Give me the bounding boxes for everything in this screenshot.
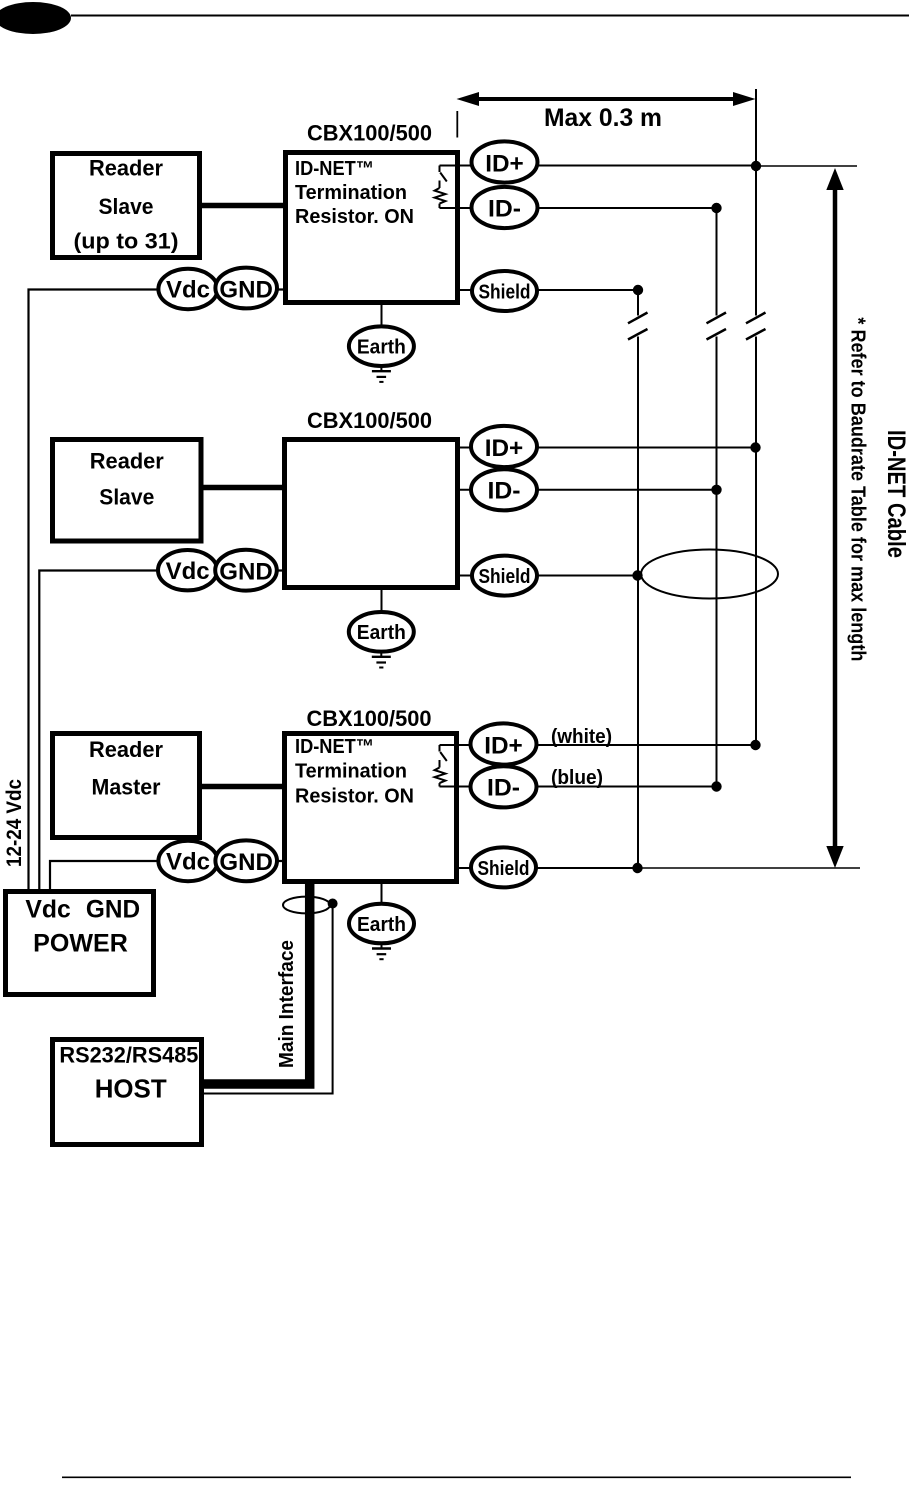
svg-text:ID-: ID- [488, 195, 521, 222]
svg-text:Shield: Shield [479, 282, 531, 304]
svg-text:12-24 Vdc: 12-24 Vdc [3, 779, 26, 867]
Shield bus upper segment [637, 290, 639, 316]
junction dot ID- row 1 [711, 203, 721, 213]
ID-NET cable length arrow [826, 168, 843, 868]
svg-text:* Refer to Baudrate Table for: * Refer to Baudrate Table for max length [847, 317, 869, 661]
Shield bus lower segment [637, 337, 639, 869]
node Vdc row 2 [158, 550, 217, 590]
svg-text:GND: GND [219, 276, 273, 303]
svg-text:CBX100/500: CBX100/500 [307, 706, 432, 731]
svg-text:ID+: ID+ [485, 150, 524, 177]
svg-text:RS232/RS485: RS232/RS485 [59, 1042, 198, 1067]
svg-text:Vdc: Vdc [25, 896, 70, 924]
header rule [71, 15, 909, 17]
node Shield row 3 [471, 847, 536, 887]
main interface second wire (thin) [204, 904, 333, 1094]
wire ID- row 2 [460, 489, 717, 491]
junction dot ID+ row 1 [751, 161, 761, 171]
node ID- row 2 [471, 469, 537, 510]
svg-text:Shield: Shield [478, 858, 530, 880]
box POWER [6, 892, 154, 995]
svg-text:Reader: Reader [89, 156, 163, 181]
svg-text:ID-: ID- [488, 478, 521, 505]
svg-text:Master: Master [92, 774, 161, 799]
junction dot ID+ row 2 [750, 442, 760, 452]
box Reader Master [53, 734, 200, 838]
svg-text:GND: GND [219, 849, 273, 876]
junction dot ID- row 2 [711, 485, 721, 495]
wire ID+ row 3 [459, 744, 756, 746]
junction dot ID- row 3 [711, 781, 721, 791]
svg-text:Earth: Earth [357, 914, 406, 936]
svg-text:Main Interface: Main Interface [276, 940, 298, 1068]
junction dot Shield row 3 [632, 863, 642, 873]
box Reader Slave 1 [53, 154, 200, 258]
svg-text:Vdc: Vdc [166, 277, 210, 304]
footer rule [62, 1476, 851, 1478]
svg-text:POWER: POWER [33, 930, 128, 958]
svg-text:Slave: Slave [99, 484, 154, 509]
svg-text:ID-NET Cable: ID-NET Cable [882, 430, 909, 558]
wire ID+ row 1 [460, 165, 756, 167]
ID+ bus upper segment [755, 89, 757, 316]
node GND row 3 [215, 840, 277, 881]
wire Shield row 1 [460, 289, 638, 291]
ID- bus lower segment [716, 337, 718, 787]
svg-text:CBX100/500: CBX100/500 [307, 408, 432, 433]
header logo ellipse [0, 2, 71, 34]
node ID+ row 1 [472, 141, 538, 182]
svg-text:GND: GND [86, 896, 140, 924]
svg-text:(white): (white) [551, 726, 612, 748]
svg-text:Earth: Earth [357, 622, 406, 644]
ID+ bus lower segment [755, 337, 757, 746]
wire Vdc/GND row 3 to POWER [50, 861, 282, 891]
junction dot ID+ row 3 [750, 740, 760, 750]
wire Vdc/GND row 2 to POWER [39, 571, 282, 892]
node GND row 2 [215, 550, 277, 591]
svg-text:ID-NET™: ID-NET™ [295, 736, 374, 758]
svg-text:Vdc: Vdc [166, 558, 210, 585]
junction dot Shield row 1 [633, 285, 643, 295]
svg-text:Termination: Termination [295, 761, 407, 783]
node Vdc row 1 [158, 269, 217, 309]
junction dot main interface [328, 899, 338, 909]
earth symbol CBX1 [349, 305, 414, 382]
svg-text:CBX100/500: CBX100/500 [307, 121, 432, 146]
svg-text:ID-NET™: ID-NET™ [295, 158, 374, 180]
svg-text:Resistor. ON: Resistor. ON [295, 785, 414, 807]
svg-text:Max 0.3 m: Max 0.3 m [544, 104, 662, 132]
svg-text:HOST: HOST [95, 1074, 167, 1104]
node ID- row 3 [471, 766, 537, 807]
svg-text:Earth: Earth [357, 337, 406, 359]
main interface cable (thick) [204, 880, 310, 1084]
box CBX2 [285, 440, 458, 588]
node ID+ row 3 [471, 723, 537, 764]
svg-text:Termination: Termination [295, 182, 407, 204]
wire Shield row 3 extension [638, 867, 861, 869]
break marks ID- bus [707, 313, 727, 340]
wire Reader Slave 1 to CBX1 [202, 203, 285, 209]
wire ID- row 1 [460, 207, 717, 209]
box CBX3 [285, 734, 457, 882]
node ID- row 1 [472, 187, 538, 228]
wire Vdc/GND row 1 to POWER [29, 290, 284, 892]
svg-text:Vdc: Vdc [166, 849, 210, 876]
svg-text:(blue): (blue) [551, 767, 603, 789]
svg-text:ID+: ID+ [485, 435, 524, 462]
wire ID+ row 1 extension [756, 165, 857, 167]
node Shield row 1 [472, 271, 537, 311]
svg-text:ID+: ID+ [484, 732, 523, 759]
cable loop ellipse at CBX3 [283, 897, 330, 914]
node ID+ row 2 [471, 426, 537, 467]
svg-text:Shield: Shield [479, 566, 531, 588]
svg-text:Reader: Reader [90, 449, 164, 474]
node Shield row 2 [472, 556, 537, 596]
svg-text:Reader: Reader [89, 737, 163, 762]
termination resistor CBX1 [435, 166, 460, 209]
break marks ID+ bus [746, 313, 766, 340]
ID- bus upper segment [716, 208, 718, 316]
wire ID- row 3 [459, 786, 717, 788]
break marks Shield bus [628, 313, 648, 340]
svg-text:Resistor. ON: Resistor. ON [295, 206, 414, 228]
node GND row 1 [215, 268, 277, 309]
svg-text:(up to 31): (up to 31) [74, 229, 179, 254]
wire Reader Slave 2 to CBX2 [203, 485, 284, 491]
junction dot Shield row 2 [632, 570, 642, 580]
cable shield loop ellipse row 2 [641, 550, 778, 599]
svg-text:ID-: ID- [487, 775, 520, 802]
box HOST [53, 1040, 202, 1145]
box CBX1 [286, 153, 458, 303]
node Vdc row 3 [158, 841, 217, 881]
svg-text:GND: GND [219, 559, 273, 586]
earth symbol CBX3 [349, 884, 414, 959]
box Reader Slave 2 [53, 440, 202, 542]
wire Reader Master to CBX3 [202, 784, 284, 790]
wire Shield row 3 [459, 867, 638, 869]
dimension guide tick left [456, 111, 458, 138]
earth symbol CBX2 [349, 590, 414, 668]
termination resistor CBX3 [435, 745, 459, 787]
svg-text:Slave: Slave [99, 194, 154, 219]
Max 0.3 m dimension arrow [457, 92, 756, 106]
wire ID+ row 2 [460, 447, 756, 449]
wire Shield row 2 [460, 575, 638, 577]
